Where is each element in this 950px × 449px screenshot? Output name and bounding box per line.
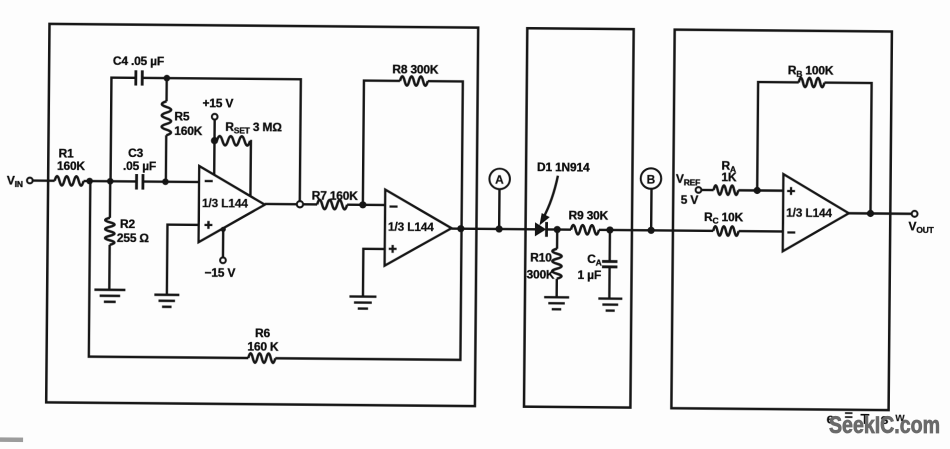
wire node B stem: [650, 189, 653, 231]
wire R6 right riser: [275, 227, 461, 360]
U2 plus pin mark: [389, 245, 397, 253]
D1 cathode bar: [545, 222, 548, 237]
wire R7 to U2 minus: [347, 203, 385, 206]
svg-text:SeekIC.com: SeekIC.com: [829, 412, 940, 439]
U3 minus pin mark: [787, 231, 795, 233]
terminal +15V: [212, 114, 218, 120]
ground under CA: [598, 298, 622, 310]
node dot RB/output: [867, 210, 874, 217]
wire RB left riser: [757, 82, 799, 191]
wire R6 left riser: [89, 181, 250, 358]
wire U3 output to VOUT: [849, 212, 912, 215]
resistor R1: [55, 176, 84, 186]
wire +15V to opamp1 top: [213, 120, 216, 175]
U2 minus pin mark: [389, 205, 397, 207]
node dot RB tap: [754, 187, 761, 194]
svg-text:R5: R5: [174, 109, 190, 123]
svg-text:R2: R2: [120, 217, 136, 231]
diode D1: [535, 223, 545, 235]
test point A: [489, 169, 510, 190]
capacitor C3: [136, 174, 143, 190]
node dot R5 tap: [162, 178, 169, 185]
test point B: [641, 168, 662, 189]
wire VIN to R1: [33, 179, 55, 182]
svg-text:160 K: 160 K: [247, 340, 279, 354]
wire C4 to output node: [141, 78, 301, 201]
wire VREF to RA: [701, 189, 713, 192]
wire to CA: [608, 230, 611, 261]
resistor RSET: [217, 136, 250, 146]
left box (first stage enclosure): [46, 24, 478, 406]
ground under U1 plus input: [154, 295, 179, 307]
wire R10 to ground: [555, 279, 558, 298]
node dot R2/C4 tap: [107, 178, 114, 185]
wire opamp1 plus to ground: [167, 225, 199, 295]
wire U1 output: [265, 203, 317, 206]
node dot -15V stem: [221, 227, 226, 232]
wire R5 to input node: [165, 135, 168, 181]
terminal VREF: [696, 187, 702, 193]
op-amp U3 1/3 L144: [783, 174, 849, 252]
resistor R7: [317, 200, 347, 210]
wire U2 output main line: [451, 229, 782, 232]
svg-text:RC 10K: RC 10K: [704, 210, 744, 226]
wire CA to ground: [608, 267, 611, 299]
svg-text:RSET 3 MΩ: RSET 3 MΩ: [225, 120, 282, 136]
input terminal VIN: [27, 178, 33, 184]
node dot R8/R6 junction: [457, 225, 464, 232]
wire RB right riser: [823, 83, 871, 214]
svg-text:1/3 L144: 1/3 L144: [202, 196, 248, 210]
svg-text:RB 100K: RB 100K: [788, 63, 834, 79]
svg-text:C4 .05 µF: C4 .05 µF: [113, 54, 164, 68]
svg-text:1K: 1K: [721, 170, 737, 184]
wire R8 right riser: [426, 81, 462, 229]
wire C3 to opamp1 minus: [143, 180, 199, 183]
resistor R9: [571, 225, 599, 235]
resistor RA: [714, 185, 739, 195]
node dot A: [496, 225, 503, 232]
U1 minus pin mark: [205, 180, 213, 182]
capacitor C4: [136, 70, 143, 85]
wire R2 to ground: [108, 245, 111, 290]
ground under R2: [94, 290, 125, 302]
svg-text:−15 V: −15 V: [204, 266, 235, 280]
resistor RC: [713, 226, 738, 236]
svg-text:A: A: [495, 173, 504, 187]
node dot R9/CA: [606, 226, 613, 233]
svg-text:.05 µF: .05 µF: [123, 159, 156, 173]
wire opamp1 to -15V: [222, 228, 225, 257]
svg-text:D1 1N914: D1 1N914: [537, 160, 590, 174]
wire to R5: [165, 78, 168, 101]
svg-text:R6: R6: [255, 326, 271, 340]
op-amp U2 1/3 L144: [385, 190, 452, 267]
node dot B: [648, 227, 655, 234]
U1 plus pin mark: [204, 221, 212, 229]
wire R8 left riser: [363, 81, 400, 206]
svg-text:5 V: 5 V: [681, 193, 699, 207]
wire node A stem: [498, 189, 501, 229]
svg-text:1/3 L144: 1/3 L144: [388, 220, 434, 234]
resistor R5: [162, 101, 172, 135]
wire node to C4: [111, 78, 136, 182]
resistor RB: [799, 78, 825, 88]
wire R1 to C3: [84, 180, 137, 183]
node dot C4/R5 junction: [164, 75, 171, 82]
svg-text:+15 V: +15 V: [202, 96, 233, 110]
wire U2 plus to ground: [363, 249, 385, 297]
right box (output stage enclosure): [671, 30, 891, 410]
svg-text:1/3 L144: 1/3 L144: [786, 206, 832, 220]
svg-text:R8 300K: R8 300K: [392, 62, 439, 76]
wire to R10: [556, 230, 559, 249]
node dot R8 tap: [359, 201, 366, 208]
middle box (detector enclosure): [524, 28, 634, 407]
svg-text:255 Ω: 255 Ω: [117, 231, 150, 245]
terminal -15V: [220, 257, 226, 263]
ground under R10: [544, 297, 569, 309]
ground under U2 plus input: [349, 297, 376, 309]
capacitor CA: [602, 261, 617, 267]
svg-text:C3: C3: [128, 146, 144, 160]
node dot R6 feedback tap: [86, 178, 93, 185]
wire RSET to opamp1 edge: [250, 141, 251, 196]
resistor R2: [105, 218, 115, 245]
svg-text:160K: 160K: [174, 124, 203, 138]
terminal VOUT: [912, 211, 918, 217]
svg-text:R10: R10: [530, 250, 552, 264]
resistor R6: [248, 353, 275, 363]
arrow D1 pointer: [543, 176, 558, 218]
svg-text:B: B: [647, 172, 656, 186]
node dot D1/R10: [554, 226, 561, 233]
resistor R8: [400, 76, 428, 86]
U3 plus pin mark: [787, 187, 795, 195]
svg-text:R9 30K: R9 30K: [569, 208, 609, 222]
resistor R10: [552, 249, 562, 279]
node dot RSET tap: [211, 137, 218, 144]
wire to R2: [109, 181, 112, 218]
svg-text:300K: 300K: [526, 267, 555, 281]
svg-text:R7 160K: R7 160K: [312, 189, 359, 203]
op-amp U1 1/3 L144: [199, 166, 265, 243]
wire RA to U3 plus: [738, 189, 783, 192]
svg-text:160K: 160K: [57, 159, 86, 173]
svg-text:1 µF: 1 µF: [577, 268, 601, 282]
open node U1 out / C4: [297, 201, 303, 207]
edge smudge: [0, 437, 23, 442]
